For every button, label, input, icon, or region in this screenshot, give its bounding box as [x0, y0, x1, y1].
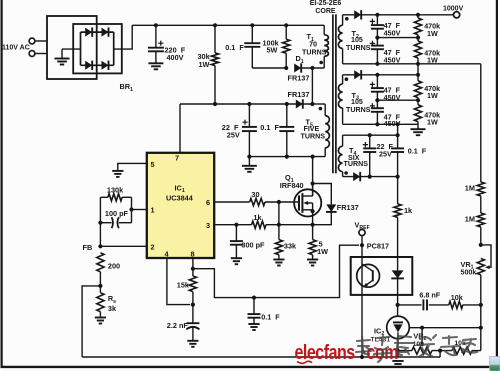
core lines: [332, 14, 334, 173]
svg-text:IRF840: IRF840: [280, 181, 304, 190]
node T3 phase dot: [345, 77, 349, 81]
wire section1 bottom rail: [343, 63, 481, 65]
wire pin1: [129, 207, 133, 211]
wire T3 top rail: [343, 74, 418, 76]
resistor 10k compensation: [449, 301, 463, 308]
capacitor 47uF 450V #3: [376, 75, 378, 88]
svg-text:70: 70: [309, 40, 317, 49]
svg-text:100 pF: 100 pF: [105, 209, 129, 218]
svg-text:TURNS: TURNS: [346, 106, 371, 114]
node T4 phase dot: [344, 171, 348, 175]
wire rail to VR2 row: [439, 351, 441, 357]
diode rectifier T3: [354, 70, 361, 79]
wire right bus lower: [480, 305, 482, 351]
capacitor 2.2nF: [186, 322, 199, 324]
transformer winding T5: [312, 103, 325, 105]
wire pin3 sense row: [214, 224, 251, 226]
svg-text:1k: 1k: [404, 206, 413, 215]
ground 2.2nF: [187, 340, 198, 342]
diode rectifier T2: [354, 10, 361, 19]
resistor 470k 1W #1: [417, 15, 419, 18]
wire VREF feed run: [193, 245, 359, 297]
shunt regulator IC2 TL431: [387, 316, 410, 339]
node T5 phase dot: [319, 107, 323, 111]
resistor 33k: [278, 225, 280, 240]
svg-text:3: 3: [206, 221, 210, 230]
potentiometer VR2 10k: [398, 350, 412, 352]
wire TL431 ref row: [409, 327, 481, 329]
diode FR137 aux: [296, 100, 303, 109]
svg-text:6: 6: [206, 198, 210, 207]
wire gate-sense link: [278, 202, 280, 225]
wire bridge bottom row: [81, 64, 114, 66]
node VREF terminal: [359, 229, 365, 235]
transformer winding T3: [342, 75, 344, 84]
svg-text:25V: 25V: [379, 150, 392, 159]
diode opto LED: [397, 257, 399, 270]
capacitor 100pF: [131, 197, 133, 222]
transformer winding T2: [342, 15, 344, 25]
wire clamp node vertical: [311, 68, 313, 104]
svg-text:1k: 1k: [253, 213, 262, 222]
wire T2 top rail: [343, 14, 454, 16]
svg-text:6.8 nF: 6.8 nF: [419, 290, 440, 299]
resistor 470k 1W #2: [417, 38, 419, 41]
ground source resistor: [307, 259, 318, 261]
svg-text:25V: 25V: [227, 131, 240, 140]
transformer winding T4: [342, 135, 344, 146]
capacitor 22uF 25V: [248, 104, 250, 127]
ground HV divider: [417, 124, 419, 129]
svg-text:2: 2: [151, 242, 155, 251]
capacitor 47uF 450V #4: [371, 107, 384, 109]
svg-text:TURNS: TURNS: [346, 44, 371, 52]
resistor 470k 1W #3: [417, 75, 419, 81]
capacitor 220uF 400V: [155, 25, 157, 47]
svg-text:1M: 1M: [465, 215, 475, 224]
svg-text:200: 200: [108, 261, 120, 270]
svg-text:1W: 1W: [427, 118, 438, 127]
diode rectifier T4: [353, 172, 360, 181]
wire D1 to T1 bottom: [301, 67, 324, 69]
resistor Rs 3k: [97, 293, 104, 312]
wire section2 bottom rail: [343, 123, 418, 125]
resistor 100k 5W: [285, 25, 287, 39]
potentiometer VR1 500k: [477, 259, 484, 275]
node FB: [98, 221, 102, 225]
wire bridge right leg: [113, 32, 115, 65]
node T1 phase dot: [319, 61, 323, 65]
svg-text:TURNS: TURNS: [302, 48, 327, 56]
svg-text:TURNS: TURNS: [301, 132, 326, 140]
ground 33k: [273, 259, 284, 261]
transistor opto phototransistor: [357, 264, 380, 287]
wire snubber bottom: [252, 67, 286, 69]
wire AC to bridge: [35, 40, 47, 42]
node snubber/D1 junction: [284, 66, 288, 70]
transformer winding T1 primary: [323, 25, 325, 35]
svg-text:30: 30: [251, 190, 259, 199]
svg-text:0.1 F: 0.1 F: [260, 123, 279, 132]
resistor 130k: [100, 196, 108, 198]
svg-text:450V: 450V: [384, 29, 401, 38]
svg-text:1W: 1W: [199, 60, 210, 69]
node bus junctions: [154, 23, 158, 27]
capacitor 0.1uF VCC: [286, 104, 288, 127]
wire pin8: [192, 258, 194, 276]
svg-text:TURNS: TURNS: [344, 160, 369, 168]
wire FB sense run: [82, 286, 100, 357]
resistor 30 gate: [250, 198, 265, 205]
resistor 5 1W source: [312, 225, 314, 240]
ground bridge AC reference: [62, 48, 81, 50]
svg-text:1W: 1W: [317, 247, 328, 256]
capacitor 300pF: [235, 225, 237, 241]
wire bridge left leg: [80, 32, 82, 65]
wire T4 ground stub: [397, 124, 399, 135]
diode bridge top-left: [85, 28, 92, 37]
svg-text:0.1 F: 0.1 F: [408, 146, 427, 155]
svg-text:10k: 10k: [451, 293, 463, 302]
wire drain: [312, 157, 314, 196]
wire pin4: [167, 258, 190, 305]
svg-text:300 pF: 300 pF: [241, 241, 265, 250]
decorative: [295, 341, 399, 363]
svg-text:EI-25-2E6: EI-25-2E6: [310, 0, 342, 7]
ground VCC rail: [248, 157, 250, 166]
resistor 15k: [189, 276, 196, 292]
corner icon: [0, 0, 1, 1]
ground pin5: [118, 163, 147, 171]
svg-text:7: 7: [175, 154, 179, 163]
resistor 200: [97, 253, 104, 272]
resistor 1k sense: [252, 221, 266, 228]
svg-text:105: 105: [351, 98, 363, 106]
diode bridge bottom-right: [102, 61, 109, 70]
bridge rectifier BR1 inner box: [73, 24, 122, 73]
diode D1 FR137: [294, 64, 301, 73]
wire bridge top row: [81, 31, 114, 33]
svg-text:500k: 500k: [461, 268, 477, 276]
svg-text:FB: FB: [83, 243, 93, 252]
wire source: [312, 210, 314, 225]
svg-text:105: 105: [351, 36, 363, 44]
svg-text:0.1 F: 0.1 F: [225, 43, 244, 52]
wire pin6 gate row: [214, 201, 249, 203]
wire VCC rail: [180, 103, 312, 105]
resistor 1M #2: [477, 213, 484, 227]
svg-text:1M: 1M: [465, 184, 475, 193]
capacitor 0.1uF snubber: [251, 25, 253, 43]
svg-text:FR137: FR137: [288, 90, 310, 99]
wire pin2: [100, 245, 146, 247]
op-amp IC1 UC3844 controller: [147, 153, 214, 258]
wire pin7 drop: [179, 104, 181, 153]
svg-text:110V AC: 110V AC: [2, 45, 30, 52]
resistor 1k opto feed: [397, 177, 399, 204]
node cap midpoint tie: [375, 36, 379, 40]
wire bottom rail: [82, 356, 440, 358]
node 1000V terminal: [454, 12, 460, 18]
capacitor 6.8nF: [398, 304, 422, 306]
svg-text:1: 1: [151, 206, 155, 215]
diode bridge bottom-left: [85, 61, 92, 70]
wire T4 bottom rail: [343, 176, 398, 178]
bridge rectifier BR1 outer loop: [47, 16, 97, 79]
svg-text:8: 8: [191, 249, 195, 258]
ground Rs: [99, 312, 101, 318]
svg-text:0.1 F: 0.1 F: [261, 312, 280, 321]
resistor 30k 1W: [214, 25, 216, 53]
wire bridge DC output: [114, 25, 133, 49]
wire opto emitter to rail: [361, 295, 363, 357]
capacitor 22uF 25V T4: [369, 135, 371, 148]
wire LED to TL431: [397, 295, 399, 316]
ground 220uF: [148, 62, 163, 64]
svg-text:130k: 130k: [107, 185, 124, 194]
svg-text:5W: 5W: [267, 46, 278, 55]
svg-text:3k: 3k: [108, 304, 117, 313]
wire resistor chain link: [417, 64, 419, 75]
diode FR137 clamp: [313, 184, 332, 205]
optocoupler PC817 box: [351, 257, 413, 295]
svg-text:1W: 1W: [427, 29, 438, 38]
svg-text:33k: 33k: [284, 241, 297, 250]
capacitor 47uF 450V #1: [376, 15, 378, 25]
transistor Q1 IRF840: [294, 189, 321, 216]
svg-text:400V: 400V: [167, 53, 184, 62]
svg-text:FR137: FR137: [337, 203, 359, 212]
svg-text:UC3844: UC3844: [166, 194, 194, 203]
node sense junction: [99, 272, 101, 293]
wire VCC ground rail: [249, 156, 325, 158]
svg-text:5: 5: [151, 160, 155, 169]
svg-text:FR137: FR137: [288, 74, 310, 83]
resistor 1M #1: [480, 179, 482, 182]
wire HV sense drop: [480, 64, 482, 179]
ground 300pF: [231, 257, 242, 259]
wire T4 top rail: [343, 134, 398, 136]
diode bridge top-right: [102, 28, 109, 37]
capacitor 0.1uF VREF: [252, 296, 256, 300]
svg-text:PC817: PC817: [367, 242, 389, 251]
svg-text:elecfans: elecfans: [295, 341, 356, 363]
svg-text:1000V: 1000V: [443, 6, 464, 13]
svg-text:2.2 nF: 2.2 nF: [167, 321, 189, 330]
node divider junction: [479, 243, 483, 247]
node T2 phase dot: [345, 17, 349, 21]
ground TL431: [392, 360, 403, 362]
svg-text:CORE: CORE: [315, 8, 336, 15]
svg-text:1W: 1W: [427, 91, 438, 100]
svg-text:15k: 15k: [177, 281, 190, 290]
wire DC bus: [132, 24, 324, 26]
resistor 10k bottom: [452, 347, 472, 354]
capacitor 47uF 450V #2: [371, 45, 384, 47]
node cap midpoint tie 2: [375, 98, 379, 102]
resistor 470k 1W #4: [417, 100, 419, 105]
capacitor 0.1uF T4: [397, 135, 399, 148]
